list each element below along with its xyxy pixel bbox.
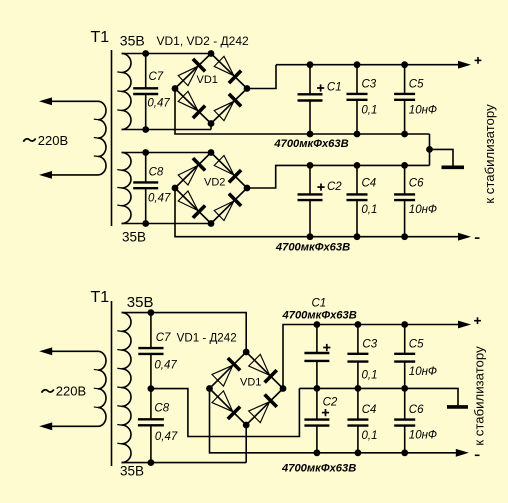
svg-text:Т1: Т1 <box>91 289 110 306</box>
node: C8 bottom junction (bottom) <box>148 459 155 466</box>
diode VD1.4 (bottom-right edge, bottom schematic) <box>249 395 277 423</box>
node: C8 top junction <box>142 149 149 156</box>
diode VD1.2 (top-right edge) <box>214 56 241 83</box>
label C3 <box>362 78 377 90</box>
diode VD1.2 (top-right edge, bottom schematic) <box>249 354 277 382</box>
terminal bar (to stabilizer, top schematic) <box>442 166 465 170</box>
polarity + of C2 <box>317 184 324 191</box>
node: C4 bottom (bottom) <box>355 449 362 456</box>
polarity + of C1 (bottom) <box>323 344 330 351</box>
primary top lead arrow <box>39 97 52 105</box>
node: bridge VD1 bottom <box>208 120 215 127</box>
label VD1 <box>197 74 218 86</box>
label C5 <box>409 78 424 90</box>
diode VD1.3 (left-bottom edge, bottom schematic) <box>212 391 240 419</box>
capacitor C2 (bottom schematic) <box>304 388 329 452</box>
svg-text:10нФ: 10нФ <box>409 430 437 442</box>
node: C5 bottom <box>401 131 408 138</box>
label C1 (bottom schematic) <box>312 298 327 310</box>
wire: VD2 minus riser and negative rail <box>175 188 460 237</box>
svg-text:0,47: 0,47 <box>155 431 178 443</box>
svg-text:10нФ: 10нФ <box>409 366 437 378</box>
node: bridge VD2 left <box>172 185 179 192</box>
node: center tap junction <box>148 385 155 392</box>
label C1 <box>327 82 342 94</box>
svg-text:35В: 35В <box>122 230 146 245</box>
node: rails junction <box>426 146 433 153</box>
svg-text:0,1: 0,1 <box>361 105 377 117</box>
primary bottom lead wire <box>52 174 98 176</box>
svg-text:0,1: 0,1 <box>361 204 377 216</box>
transformer T1 core (bottom schematic) <box>111 301 113 466</box>
node: C5 top (bottom) <box>401 321 408 328</box>
node: C6 bottom (bottom) <box>401 449 408 456</box>
label VD1 (inside bridge, bottom) <box>240 377 261 389</box>
node: C3 bottom <box>354 131 361 138</box>
label C4 <box>362 178 377 190</box>
wire: VD1 minus riser and zero rail <box>175 89 430 135</box>
primary top lead wire <box>52 100 98 102</box>
node: C1 bottom <box>307 131 314 138</box>
wire: junction to stabilizer tap <box>430 149 454 166</box>
primary winding (top schematic) <box>94 101 106 175</box>
svg-text:C6: C6 <box>409 404 424 416</box>
node: C3 bottom / C4 top (bottom) <box>355 385 362 392</box>
label 10нФ (C6 value) <box>409 204 437 216</box>
label T1 (bottom schematic) <box>91 289 110 306</box>
diode VD1.4 (bottom-right edge) <box>214 94 241 121</box>
wire: secondary I bottom lead <box>122 129 212 131</box>
primary bottom lead wire (bottom) <box>52 425 98 427</box>
label T1 (top schematic) <box>91 29 110 46</box>
primary bottom lead arrow <box>39 171 52 179</box>
diode VD2.4 (bottom-right edge) <box>214 194 241 221</box>
svg-text:35В: 35В <box>120 32 145 48</box>
svg-text:C3: C3 <box>362 339 377 351</box>
wire: secondary I top lead to bridge VD1 <box>122 53 212 55</box>
svg-text:VD1: VD1 <box>197 74 218 86</box>
capacitor C8 (bottom schematic) <box>138 389 164 463</box>
label - (bottom schematic) <box>475 454 480 456</box>
wire: zero rail corner down <box>429 134 431 149</box>
label C6 (bottom) <box>409 404 424 416</box>
node: bridge right (bottom schematic) <box>280 385 287 392</box>
svg-text:C1: C1 <box>312 298 327 310</box>
svg-text:VD2: VD2 <box>204 177 225 189</box>
capacitor C3 <box>347 65 368 134</box>
node: C6 bottom <box>401 233 408 240</box>
diode VD1.1 (left-top edge) <box>178 59 205 86</box>
node: C3 top <box>354 61 361 68</box>
wire: secondary II bottom lead <box>122 223 212 225</box>
label 35В bottom (bottom schematic) <box>120 464 144 479</box>
svg-text:0,1: 0,1 <box>362 430 378 442</box>
svg-text:220В: 220В <box>56 384 86 399</box>
svg-text:4700мкФх63В: 4700мкФх63В <box>282 309 357 321</box>
wire: riser to bridge bottom node <box>245 425 247 463</box>
primary bottom lead arrow (bottom) <box>39 422 52 430</box>
svg-text:10нФ: 10нФ <box>409 105 437 117</box>
label 35В top (bottom schematic) <box>127 294 154 311</box>
node: bridge left (bottom schematic) <box>206 385 213 392</box>
capacitor C5 <box>394 65 415 134</box>
terminal bar (to stabilizer, bottom schematic) <box>447 405 468 409</box>
svg-text:C5: C5 <box>409 339 424 351</box>
label C8 <box>149 166 164 178</box>
label 0,1 (bottom C4) <box>362 430 378 442</box>
svg-text:4700мкФх63В: 4700мкФх63В <box>275 242 350 254</box>
svg-text:4700мкФх63В: 4700мкФх63В <box>273 138 348 150</box>
capacitor C4 (bottom schematic) <box>347 388 368 452</box>
svg-text:VD1, VD2 - Д242: VD1, VD2 - Д242 <box>157 34 249 48</box>
node: bridge VD1 top <box>208 50 215 57</box>
svg-text:C7: C7 <box>149 71 164 83</box>
node: C6 top <box>401 162 408 169</box>
svg-text:VD1 - Д242: VD1 - Д242 <box>177 332 237 345</box>
capacitor C6 (bottom schematic) <box>394 388 415 452</box>
label 0,47 (C7 value) <box>147 98 170 110</box>
node: bridge VD2 bottom <box>208 220 215 227</box>
label C6 <box>409 178 424 190</box>
label 4700мкФх63В (C1 value) <box>273 138 348 150</box>
diode VD2.1 (left-top edge) <box>178 158 205 185</box>
label 10нФ (bottom C6) <box>409 430 437 442</box>
label 0,47 (bottom C8) <box>155 431 178 443</box>
capacitor C5 (bottom schematic) <box>394 325 415 389</box>
label к стабилизатору (top schematic) <box>482 104 497 204</box>
node: C5 bottom / C6 top (bottom) <box>401 385 408 392</box>
transformer T1 core (top schematic) <box>111 50 113 226</box>
node: C1 top (bottom) <box>314 321 321 328</box>
capacitor C7 (bottom schematic) <box>138 313 163 389</box>
label 4700мкФх63В (bottom C1 value) <box>282 309 357 321</box>
svg-text:35В: 35В <box>127 294 154 311</box>
node: C8 bottom junction <box>142 220 149 227</box>
label 10нФ (bottom C5) <box>409 366 437 378</box>
svg-text:к стабилизатору: к стабилизатору <box>482 104 497 204</box>
diode VD1.3 (left-bottom edge) <box>178 91 205 118</box>
svg-text:220В: 220В <box>38 133 68 148</box>
label + (top right) <box>475 57 482 64</box>
svg-text:C2: C2 <box>327 181 342 193</box>
label ~220В (bottom schematic) <box>42 384 87 399</box>
node: bridge VD2 top <box>208 149 215 156</box>
label C7 (bottom) <box>156 332 171 344</box>
wire: stub to bridge VD1 bottom node <box>210 124 212 130</box>
label ~220В (top schematic) <box>23 133 68 148</box>
svg-text:C5: C5 <box>409 78 424 90</box>
svg-text:Т1: Т1 <box>91 29 110 46</box>
label C7 <box>149 71 164 83</box>
node: C4 top <box>354 162 361 169</box>
capacitor C3 (bottom schematic) <box>347 325 368 389</box>
node: C1 top <box>307 61 314 68</box>
node: C2 top <box>307 162 314 169</box>
capacitor C2 (polarized) <box>298 165 323 236</box>
label 0,1 (C4 value) <box>361 204 377 216</box>
svg-text:к стабилизатору: к стабилизатору <box>472 346 487 446</box>
label 0,1 (bottom C3) <box>362 370 378 382</box>
node: bridge VD1 left <box>172 85 179 92</box>
bridge rectifier VD2 frame <box>175 153 247 224</box>
label - (top schematic) <box>475 237 480 239</box>
label 4700мкФх63В (bottom C2 value) <box>281 463 356 475</box>
capacitor C7 <box>133 54 158 130</box>
capacitor C4 <box>347 165 368 236</box>
node: C2 bottom <box>307 233 314 240</box>
svg-text:C6: C6 <box>409 178 424 190</box>
label 35В bottom <box>122 230 146 245</box>
bridge rectifier VD1 frame (bottom schematic) <box>210 352 284 425</box>
node: C5 top <box>401 61 408 68</box>
svg-text:0,47: 0,47 <box>154 359 177 371</box>
diode VD1.1 (left-top edge, bottom schematic) <box>212 358 240 386</box>
label 0,1 (C3 value) <box>361 105 377 117</box>
svg-text:VD1: VD1 <box>240 377 261 389</box>
node: C2 bottom (bottom) <box>314 449 321 456</box>
svg-text:C7: C7 <box>156 332 171 344</box>
primary top lead wire (bottom) <box>52 350 98 352</box>
bridge rectifier VD1 frame <box>175 54 247 124</box>
capacitor C8 <box>133 153 158 224</box>
primary top lead arrow (bottom) <box>39 347 52 355</box>
node: C7 top junction (bottom) <box>148 309 155 316</box>
node: C7 bottom junction <box>142 126 149 133</box>
wire: minus riser and negative rail (bottom schematic) <box>210 389 457 453</box>
label 10нФ (C5 value) <box>409 105 437 117</box>
label C3 (bottom) <box>362 339 377 351</box>
svg-text:35В: 35В <box>120 464 144 479</box>
arrow: negative rail output <box>458 233 471 241</box>
wire: positive rail (top schematic) <box>276 64 460 66</box>
svg-text:C4: C4 <box>362 178 377 190</box>
node: C1 bottom / C2 top (bottom) <box>314 385 321 392</box>
svg-text:10нФ: 10нФ <box>409 204 437 216</box>
node: bridge VD2 right <box>244 185 251 192</box>
node: C4 bottom <box>354 233 361 240</box>
label VD1, VD2 - Д242 <box>157 34 249 48</box>
svg-text:0,47: 0,47 <box>148 193 171 205</box>
primary winding (bottom schematic) <box>94 351 106 426</box>
wire: VD2 plus output to middle rail <box>247 165 430 188</box>
secondary winding with center tap (bottom schematic) <box>117 313 131 463</box>
svg-text:C2: C2 <box>323 397 338 409</box>
secondary winding II (top schematic) <box>117 153 131 224</box>
label + (bottom schematic) <box>474 317 481 324</box>
svg-text:0,47: 0,47 <box>147 98 170 110</box>
capacitor C1 (bottom schematic) <box>304 325 329 389</box>
label 4700мкФх63В (C2 value) <box>275 242 350 254</box>
wire: secondary bottom lead (bottom schematic) <box>122 462 247 464</box>
label VD1 - Д242 <box>177 332 237 345</box>
arrow: positive rail output <box>458 61 471 69</box>
label 0,47 (C8 value) <box>148 193 171 205</box>
label 35В top <box>120 32 145 48</box>
arrow: negative rail output (bottom) <box>456 449 469 457</box>
node: bridge VD1 right <box>244 85 251 92</box>
svg-text:0,1: 0,1 <box>362 370 378 382</box>
label C2 (bottom) <box>323 397 338 409</box>
svg-text:C8: C8 <box>149 166 164 178</box>
svg-text:4700мкФх63В: 4700мкФх63В <box>281 463 356 475</box>
node: bridge bottom (bottom schematic) <box>243 422 250 429</box>
polarity + of C2 (bottom) <box>322 409 329 416</box>
capacitor C1 (polarized) <box>298 65 323 134</box>
label к стабилизатору (bottom schematic) <box>472 346 487 446</box>
capacitor C6 <box>394 165 415 236</box>
wire: middle rail (bottom schematic) <box>299 388 458 405</box>
label C8 (bottom) <box>154 403 169 415</box>
node: C7 top junction <box>142 50 149 57</box>
svg-text:C1: C1 <box>327 82 342 94</box>
svg-text:C3: C3 <box>362 78 377 90</box>
wire: secondary II top lead to bridge VD2 <box>122 152 212 154</box>
label VD2 <box>204 177 225 189</box>
node: C3 top (bottom) <box>355 321 362 328</box>
diode VD2.2 (top-right edge) <box>214 156 241 183</box>
secondary winding I (top schematic) <box>117 54 131 130</box>
svg-text:C8: C8 <box>154 403 169 415</box>
wire: center tap route <box>151 388 300 436</box>
node: bridge top (bottom schematic) <box>243 349 250 356</box>
wire: secondary top lead (bottom schematic) <box>122 313 247 352</box>
label C2 <box>327 181 342 193</box>
wire: VD1 plus output to top rail <box>247 65 276 89</box>
label C4 (bottom) <box>362 404 377 416</box>
label C5 (bottom) <box>409 339 424 351</box>
label 0,47 (bottom C7) <box>154 359 177 371</box>
svg-text:C4: C4 <box>362 404 377 416</box>
diode VD2.3 (left-bottom edge) <box>178 191 205 218</box>
wire: plus riser and positive rail (bottom schematic) <box>283 325 460 389</box>
polarity + of C1 <box>317 84 324 91</box>
wire: middle rail corner up <box>429 149 431 165</box>
arrow: positive rail output (bottom) <box>458 321 471 329</box>
